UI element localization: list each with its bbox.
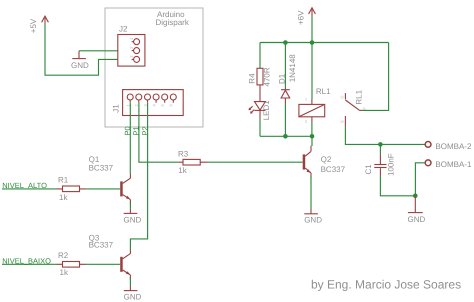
- svg-text:R1: R1: [58, 176, 69, 185]
- wire rail to relay coil: [311, 43, 313, 100]
- wire Q3 emitter to ground: [129, 278, 131, 287]
- capacitor C1 100nF: [364, 153, 396, 176]
- svg-text:J1: J1: [112, 104, 121, 113]
- svg-text:C1: C1: [364, 164, 373, 175]
- svg-text:100nF: 100nF: [387, 153, 396, 176]
- svg-text:by Eng. Marcio Jose Soares: by Eng. Marcio Jose Soares: [311, 277, 461, 291]
- wire P1 from J1 pin 2 to R3: [139, 103, 178, 162]
- junction bottom rail at D1: [283, 134, 288, 139]
- svg-text:RL1: RL1: [355, 89, 364, 104]
- wire contact S to BOMBA-2: [345, 126, 424, 144]
- connector J1: [112, 90, 184, 116]
- svg-text:+6V: +6V: [296, 10, 305, 25]
- relay coil pin numbers: [305, 96, 308, 124]
- svg-text:RL1: RL1: [316, 87, 331, 96]
- wire +6V stem: [311, 17, 313, 43]
- relay contact pin letters O P S: [339, 95, 367, 123]
- wire rail to relay contact P: [362, 43, 389, 111]
- svg-text:J2: J2: [119, 25, 128, 34]
- svg-text:P: P: [362, 107, 367, 110]
- svg-text:R2: R2: [58, 251, 69, 260]
- svg-text:BC337: BC337: [89, 163, 114, 172]
- ground GND at Q3: [124, 286, 142, 302]
- wire R3 to Q2 base: [207, 161, 303, 163]
- J2 pin numbers 1-3: [129, 37, 134, 58]
- transistor Q2 BC337: [303, 146, 346, 179]
- wire +6V top rail: [260, 42, 389, 44]
- wire GND to J2 pin 2: [79, 50, 134, 52]
- transistor Q3 BC337: [89, 233, 131, 279]
- svg-text:S: S: [339, 120, 344, 123]
- svg-text:GND: GND: [124, 293, 142, 302]
- junction ground rail at GND stub: [413, 194, 418, 199]
- svg-text:BC337: BC337: [321, 165, 346, 174]
- svg-text:BOMBA-2: BOMBA-2: [435, 142, 472, 151]
- supply +5V: [29, 16, 48, 33]
- svg-text:BOMBA-1: BOMBA-1: [435, 160, 472, 169]
- ground GND at C1: [408, 196, 426, 224]
- LED LED1: [249, 100, 271, 121]
- wire R2 to Q3 base: [86, 263, 120, 265]
- relay coil RL1: [299, 87, 331, 122]
- svg-text:1k: 1k: [178, 166, 187, 175]
- svg-text:GND: GND: [71, 61, 89, 70]
- wire P2 from J1 pin 3 to Q3 collector: [130, 103, 147, 250]
- terminal BOMBA-2: [425, 142, 472, 151]
- svg-text:470R: 470R: [263, 67, 272, 86]
- wire Q1 emitter to ground: [129, 202, 131, 209]
- J1 pin numbers 1-6: [126, 104, 174, 107]
- svg-text:1N4148: 1N4148: [288, 54, 297, 83]
- svg-text:LED1: LED1: [262, 100, 271, 121]
- junction +6V rail at D1: [283, 40, 288, 45]
- svg-text:GND: GND: [304, 215, 322, 224]
- Arduino Digispark module frame: [105, 8, 203, 127]
- svg-text:1k: 1k: [60, 268, 69, 277]
- wire Q2 collector to bottom rail: [311, 136, 313, 146]
- wire bottom rail: [260, 135, 312, 137]
- wire D1 to bottom rail: [284, 104, 286, 137]
- junction BOMBA-2 line at C1: [378, 142, 383, 147]
- svg-text:R4: R4: [247, 73, 256, 84]
- resistor R1: [57, 176, 87, 203]
- svg-text:BC337: BC337: [89, 241, 114, 250]
- wire C1 top to BOMBA-2 line: [379, 144, 381, 155]
- svg-text:R3: R3: [178, 150, 189, 159]
- wire NIVEL_BAIXO to R2: [2, 263, 57, 265]
- wire +5V to J2 pin 3: [45, 24, 134, 76]
- junction bottom rail at Q2 collector: [310, 134, 315, 139]
- resistor R4 470R: [247, 67, 271, 101]
- svg-text:1k: 1k: [59, 193, 68, 202]
- svg-text:GND: GND: [124, 215, 142, 224]
- wire R1 to Q1 base: [86, 188, 120, 190]
- wire P0 from J1 pin 1 to Q1 collector: [129, 103, 131, 174]
- relay contact RL1: [345, 89, 363, 126]
- diode D1 1N4148: [277, 54, 297, 104]
- junction +6V rail at supply: [310, 40, 315, 45]
- wire LED1 to bottom rail: [259, 119, 261, 137]
- transistor Q1 BC337: [89, 155, 131, 204]
- wire C1 bottom to ground rail: [380, 176, 415, 196]
- wire Q2 emitter to ground: [310, 176, 312, 209]
- terminal BOMBA-1: [425, 160, 472, 169]
- ground GND near J2: [71, 51, 89, 70]
- wire NIVEL_ALTO to R1: [2, 188, 57, 190]
- wire coil to bottom rail: [311, 123, 313, 137]
- svg-text:Digispark: Digispark: [156, 18, 190, 27]
- ground GND at Q2: [304, 209, 322, 224]
- resistor R2: [57, 251, 87, 277]
- svg-text:D1: D1: [277, 73, 286, 84]
- resistor R3: [178, 150, 207, 176]
- connector J2: [118, 25, 145, 66]
- svg-text:GND: GND: [408, 215, 426, 224]
- wire rail to R4: [259, 43, 261, 69]
- supply +6V: [296, 8, 315, 25]
- svg-text:Q2: Q2: [321, 155, 332, 164]
- wire rail to D1: [284, 43, 286, 89]
- svg-text:O: O: [339, 95, 344, 98]
- wire BOMBA-1 to ground rail: [415, 163, 424, 196]
- ground GND at Q1: [124, 209, 142, 225]
- svg-text:+5V: +5V: [29, 18, 38, 33]
